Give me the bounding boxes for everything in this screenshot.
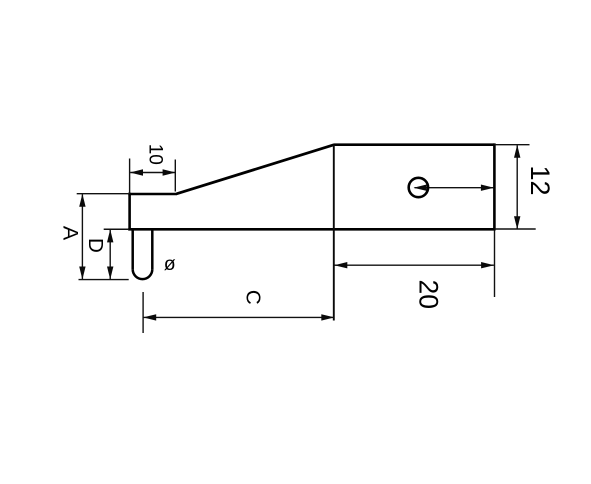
dimension line C <box>144 316 335 318</box>
extension line above part left edge for dim 10 <box>129 159 131 195</box>
arrowhead dim A down <box>79 267 85 280</box>
arrowhead dim D up <box>107 229 113 242</box>
arrowhead dim 20 right <box>481 262 494 268</box>
hole circle <box>409 178 428 197</box>
extension line top for dim A <box>77 193 129 195</box>
pin: right side <box>151 229 154 269</box>
svg-text:D: D <box>84 238 107 253</box>
svg-text:C: C <box>242 290 265 305</box>
arrowhead leader left (at hole) <box>414 185 427 191</box>
svg-text:10: 10 <box>144 144 165 165</box>
svg-text:20: 20 <box>414 279 444 308</box>
leader line from hole circle to right edge <box>415 187 494 189</box>
svg-text:12: 12 <box>525 165 555 195</box>
part edge: mid vertical at slant top, extends down as extension line for C and 20 <box>333 145 335 321</box>
dimension line D <box>109 230 111 279</box>
pin: rounded bottom cap <box>133 269 153 279</box>
part outline: top edge <box>334 143 495 146</box>
dimension line 10 <box>130 172 175 174</box>
arrowhead dim A up <box>79 194 85 207</box>
arrowhead dim 10 left <box>130 169 143 175</box>
svg-text:A: A <box>59 226 83 241</box>
arrowhead dim 10 right <box>163 169 176 175</box>
part outline: left edge <box>128 193 131 231</box>
extension line left for dim C (pin centerline) <box>142 292 144 333</box>
part outline: bottom edge <box>128 228 494 231</box>
arrowhead dim C left <box>143 314 156 320</box>
svg-text:ø: ø <box>164 253 176 275</box>
pin: left side <box>131 229 134 269</box>
arrowhead leader right (at edge) <box>481 185 494 191</box>
extension of bottom edge right for dim 12 <box>494 228 535 230</box>
arrowhead dim D down <box>107 267 113 280</box>
extension line right for dim 20 <box>494 231 496 298</box>
dimension line 20 <box>334 264 494 266</box>
part outline: slanted edge <box>177 145 335 194</box>
part outline: step top <box>128 193 177 196</box>
dimension line A <box>81 194 83 279</box>
part outline: right edge <box>493 143 496 230</box>
dimension line 12 <box>516 145 518 228</box>
arrowhead dim 12 up <box>514 145 520 158</box>
arrowhead dim 20 left <box>334 262 347 268</box>
arrowhead dim 12 down <box>514 216 520 229</box>
extension line bottom for dim A (tangent to pin bottom) <box>79 279 129 281</box>
arrowhead dim C right <box>321 314 334 320</box>
extension line right of dim 10 <box>174 160 176 192</box>
extension of bottom edge left for dim D <box>104 228 129 230</box>
extension of top edge right for dim 12 <box>494 144 529 146</box>
